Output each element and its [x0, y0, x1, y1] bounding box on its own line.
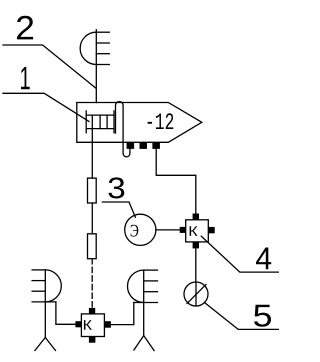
KR2 left pin	[75, 321, 81, 327]
comb line 4	[134, 302, 158, 304]
wire pin3 to KR1	[156, 149, 196, 214]
KR1 bottom pin	[193, 242, 199, 249]
callout label 2	[3, 16, 96, 88]
sensing element (item 1)	[86, 111, 114, 133]
arc	[128, 270, 144, 302]
KR1 right pin	[208, 227, 214, 233]
top bar	[86, 114, 114, 116]
bottom bar	[86, 128, 114, 130]
callout label 4	[201, 236, 278, 272]
wire ЭП to KR1	[156, 229, 180, 231]
wire left antenna to KR2	[56, 302, 76, 324]
left leg	[134, 336, 144, 350]
electric motor ЭП (item 3)	[125, 214, 156, 245]
mast	[143, 270, 145, 336]
comb line 3	[144, 291, 158, 293]
receiver unit АГ-12 pennant outline	[77, 103, 202, 143]
comb line 3	[96, 53, 109, 55]
whip antenna left	[32, 270, 61, 351]
wire KR1 to connector	[195, 248, 197, 282]
connector diagonal	[187, 285, 206, 304]
wire right antenna to KR2	[111, 303, 134, 325]
KR2 bottom pin	[89, 337, 96, 343]
divider 1	[91, 115, 93, 129]
mast wire	[95, 30, 97, 103]
pin 3	[152, 142, 160, 149]
connector item 5	[184, 282, 208, 306]
wire fuse1 to fuse2	[91, 203, 93, 234]
callout label 5	[205, 303, 279, 330]
right leg	[45, 338, 55, 351]
fuse F1	[88, 178, 97, 203]
divider 3	[106, 115, 108, 129]
callout label 3	[102, 177, 135, 217]
KR1 top pin	[193, 214, 199, 220]
dashed wire to KR2	[91, 259, 93, 308]
loop arc	[80, 32, 96, 64]
right terminal	[113, 111, 115, 133]
arc	[45, 270, 61, 302]
comb line 1	[96, 31, 109, 33]
left leg	[35, 338, 45, 351]
comb line 2	[96, 42, 109, 44]
comb line 2	[144, 280, 158, 282]
callout label 1	[3, 67, 89, 122]
comb line 2	[32, 280, 45, 282]
comb line 3	[32, 290, 45, 292]
comb line 1	[144, 269, 158, 271]
mast	[44, 270, 46, 338]
pin 1	[127, 142, 135, 149]
discharge loop	[116, 102, 130, 157]
loop antenna (top, item 2)	[80, 30, 109, 103]
comb line 1	[32, 269, 45, 271]
junction box KR1 (item 4)	[180, 214, 215, 249]
fuse F2	[88, 234, 97, 259]
comb line 4	[96, 64, 109, 66]
whip antenna right	[128, 270, 158, 351]
wire box to fuse 1	[91, 129, 93, 179]
right leg	[144, 336, 154, 351]
wire through connector	[195, 282, 197, 306]
label АГ-12	[148, 113, 174, 129]
divider 2	[99, 115, 101, 129]
KR2 top pin	[89, 308, 95, 314]
KR1 left pin	[180, 227, 186, 233]
pin 2	[140, 142, 148, 149]
comb line 4	[32, 301, 56, 303]
junction box KR2	[75, 308, 111, 343]
left terminal	[85, 111, 87, 133]
KR2 right pin	[104, 321, 111, 328]
